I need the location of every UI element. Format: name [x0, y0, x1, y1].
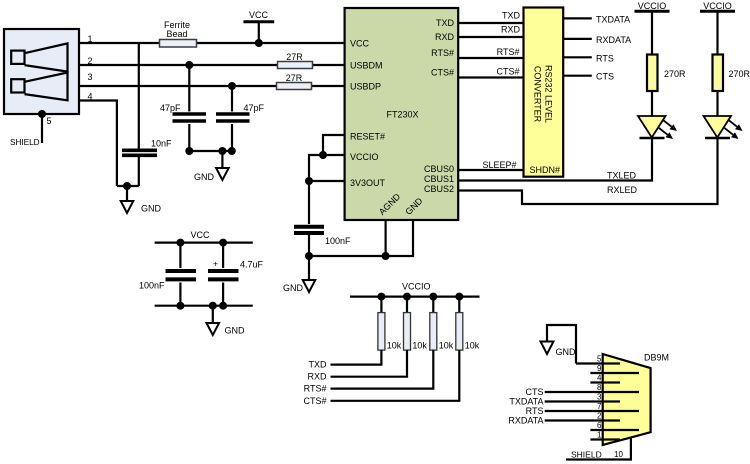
svg-text:3V3OUT: 3V3OUT: [350, 178, 386, 188]
svg-text:1: 1: [597, 431, 602, 440]
wire CTS#: [458, 76, 523, 78]
svg-text:GND: GND: [283, 283, 304, 293]
junction bottom rail c: [219, 302, 227, 310]
wire line4 GND from pin4: [79, 101, 117, 187]
net label TXD: [502, 11, 521, 21]
net label RTS db9: [526, 406, 544, 416]
ground symbol below 47pF caps: [194, 151, 229, 182]
wire RXDATA out: [563, 38, 592, 40]
ground symbol below 10nF: [121, 186, 162, 214]
wire line1 VBUS/VCC: [79, 42, 345, 44]
junction VCC on line1: [255, 39, 263, 47]
junction cap link a: [185, 147, 193, 155]
capacitor C2 47pF on USBDM: [160, 65, 206, 151]
net label SLEEP#: [482, 160, 516, 170]
pin 5 stem wire: [41, 114, 43, 143]
pin 7 line RTS: [545, 402, 639, 411]
wire TXLED CBUS1: [458, 138, 652, 181]
ferrite bead FB1: [160, 20, 197, 47]
pin label CBUS0: [424, 164, 454, 174]
svg-text:CONVERTER: CONVERTER: [533, 66, 543, 123]
pin label TXD: [436, 18, 455, 28]
svg-text:RXDATA: RXDATA: [596, 35, 631, 45]
junction top rail a: [176, 239, 184, 247]
svg-text:TXDATA: TXDATA: [596, 14, 630, 24]
junction cap link c: [228, 147, 236, 155]
capacitor C1 10nF branch: [122, 43, 172, 186]
svg-text:10: 10: [614, 450, 623, 459]
ground symbol chip: [283, 280, 315, 293]
pin label 3V3OUT: [350, 178, 386, 188]
junction 3V3OUT: [305, 177, 313, 185]
LED D2: [704, 116, 743, 139]
net label RXD pullup: [307, 372, 327, 382]
pin 1 line: [590, 431, 620, 440]
wire line3 USBDP: [79, 85, 345, 87]
svg-text:10k: 10k: [387, 341, 402, 351]
LED D1: [638, 116, 677, 139]
net label CTS db9: [526, 387, 544, 397]
svg-text:TXD: TXD: [436, 18, 455, 28]
pin 8 line CTS: [545, 383, 639, 392]
svg-text:GND: GND: [194, 172, 215, 182]
net label RXLED: [607, 185, 638, 195]
wire AGND stub: [385, 220, 387, 256]
junction cap link b: [218, 147, 226, 155]
pin 6 line: [590, 421, 639, 430]
svg-text:10k: 10k: [465, 341, 480, 351]
power VCCIO symbol led1: [635, 1, 670, 54]
svg-text:CTS: CTS: [596, 72, 614, 82]
net label TXDATA: [596, 14, 630, 24]
svg-text:47pF: 47pF: [244, 103, 265, 113]
net label CTS#: [496, 67, 519, 77]
svg-text:DB9M: DB9M: [644, 353, 669, 363]
svg-text:7: 7: [597, 402, 602, 411]
net label TXDATA db9: [509, 397, 543, 407]
capacitor C5 100nF: [139, 243, 196, 306]
svg-text:+: +: [213, 259, 218, 269]
svg-text:4: 4: [597, 374, 602, 383]
wire R4 to LED: [716, 92, 718, 116]
pin 10 shield wire: [566, 438, 631, 460]
resistor R6 10k RXD: [331, 297, 428, 377]
resistor R4 270R: [713, 55, 750, 92]
svg-text:RTS#: RTS#: [304, 384, 327, 394]
svg-text:VCC: VCC: [191, 230, 211, 240]
svg-text:RXD: RXD: [435, 32, 455, 42]
svg-text:TXLED: TXLED: [607, 171, 637, 181]
svg-text:TXD: TXD: [502, 11, 521, 21]
junction GND link chip: [305, 252, 313, 260]
svg-text:VCCIO: VCCIO: [638, 1, 667, 11]
pin label USBDP: [350, 82, 381, 92]
net label SHIELD db9: [571, 450, 602, 460]
power VCCIO symbol led2: [700, 1, 735, 54]
wire VCCIO pin: [309, 155, 345, 224]
pin label RESET#: [350, 132, 385, 142]
pin 5 line: [576, 355, 620, 364]
junction rail r1: [377, 293, 385, 301]
svg-text:USBDP: USBDP: [350, 82, 381, 92]
svg-text:270R: 270R: [664, 69, 686, 79]
pin label GND rotated: [403, 195, 425, 217]
svg-text:RXLED: RXLED: [607, 185, 638, 195]
resistor R1 27R on USBDM: [278, 52, 313, 69]
net label CTS# pullup: [303, 396, 326, 406]
pin label CBUS2: [424, 184, 454, 194]
wire TXD: [458, 22, 523, 24]
net label RTS# pullup: [304, 384, 327, 394]
svg-text:CBUS2: CBUS2: [424, 184, 454, 194]
resistor R8 10k CTS#: [331, 297, 480, 401]
svg-text:RTS: RTS: [596, 53, 614, 63]
junction 47pF-1 on line2: [185, 61, 193, 69]
svg-text:3: 3: [88, 72, 93, 82]
svg-text:CTS: CTS: [526, 387, 544, 397]
svg-text:10k: 10k: [412, 341, 427, 351]
svg-text:CTS#: CTS#: [496, 67, 519, 77]
svg-text:SHDN#: SHDN#: [530, 165, 561, 175]
svg-text:3: 3: [597, 393, 602, 402]
net label VCC: [191, 230, 211, 240]
junction top rail b: [219, 239, 227, 247]
SHIELD net label: [10, 138, 40, 147]
svg-text:27R: 27R: [286, 73, 303, 83]
svg-text:RTS#: RTS#: [431, 48, 454, 58]
svg-text:TXDATA: TXDATA: [509, 397, 543, 407]
svg-text:5: 5: [597, 355, 602, 364]
wire TXDATA out: [563, 17, 592, 19]
svg-text:RXDATA: RXDATA: [508, 416, 543, 426]
svg-text:8: 8: [597, 383, 602, 392]
net label RXDATA: [596, 35, 631, 45]
wire RTS#: [458, 57, 523, 59]
net label RXD: [501, 25, 521, 35]
svg-text:100nF: 100nF: [139, 281, 165, 291]
svg-text:2: 2: [597, 412, 602, 421]
wire AGND/GND bottom link: [309, 220, 413, 256]
junction AGND: [382, 252, 390, 260]
svg-text:VCCIO: VCCIO: [703, 1, 732, 11]
net label RTS: [596, 53, 614, 63]
svg-text:CTS#: CTS#: [303, 396, 326, 406]
svg-text:CTS#: CTS#: [431, 68, 454, 78]
svg-text:TXD: TXD: [309, 360, 328, 370]
wire RXD: [458, 36, 523, 38]
svg-text:VCCIO: VCCIO: [402, 282, 431, 292]
wire RXLED CBUS2: [458, 139, 717, 204]
ground symbol db9: [541, 325, 577, 364]
svg-text:USBDM: USBDM: [350, 61, 383, 71]
svg-text:SHIELD: SHIELD: [10, 138, 40, 147]
svg-text:RXD: RXD: [501, 25, 521, 35]
op-chip U1 FT230X body: [345, 8, 459, 220]
svg-text:RESET#: RESET#: [350, 132, 385, 142]
junction bottom rail b: [209, 302, 217, 310]
svg-text:SLEEP#: SLEEP#: [482, 160, 516, 170]
USB symbol upper horn: [11, 43, 67, 71]
connector J1 USB body: [4, 29, 79, 114]
svg-text:270R: 270R: [729, 69, 750, 79]
pin label USBDM: [350, 61, 383, 71]
pin label CTS#: [431, 68, 454, 78]
svg-text:CBUS1: CBUS1: [424, 174, 454, 184]
pin 2 line RXDATA: [545, 412, 620, 421]
svg-text:VCCIO: VCCIO: [350, 152, 379, 162]
pin 3 label: [88, 72, 93, 82]
svg-text:27R: 27R: [286, 52, 303, 62]
svg-text:GND: GND: [141, 204, 162, 214]
svg-text:RTS: RTS: [526, 406, 544, 416]
wire GND link under 10nF: [117, 185, 139, 187]
pin 3 line TXDATA: [545, 393, 620, 402]
junction pin 5: [38, 110, 46, 118]
svg-text:GND: GND: [225, 326, 246, 336]
pin label AGND rotated: [377, 191, 403, 217]
svg-text:CBUS0: CBUS0: [424, 164, 454, 174]
net label TXLED: [607, 171, 637, 181]
pin label RXD: [435, 32, 455, 42]
ground symbol vcc bank: [207, 306, 246, 336]
wire RESET#: [323, 135, 345, 155]
svg-text:RS232 LEVEL: RS232 LEVEL: [544, 65, 554, 123]
converter U2 body: [524, 8, 564, 177]
capacitor C6 4.7uF polarized: [208, 243, 264, 306]
wire 3V3OUT: [309, 180, 345, 182]
svg-text:47pF: 47pF: [160, 103, 181, 113]
junction RESET/VCCIO: [319, 151, 327, 159]
wire R3 to LED: [651, 92, 653, 116]
resistor R3 270R: [647, 55, 686, 92]
svg-text:FT230X: FT230X: [387, 110, 419, 120]
wire GND link caps: [189, 150, 232, 152]
pin label VCC: [350, 39, 370, 49]
svg-text:VCC: VCC: [249, 10, 269, 20]
net label TXD pullup: [309, 360, 328, 370]
wire VCC top rail: [155, 242, 253, 244]
pin 4 label: [88, 92, 93, 102]
resistor R2 27R on USBDP: [277, 73, 312, 90]
capacitor C3 47pF on USBDP: [216, 86, 265, 151]
svg-text:10nF: 10nF: [151, 139, 172, 149]
junction rail r2: [403, 293, 411, 301]
junction bottom rail a: [176, 302, 184, 310]
svg-text:5: 5: [47, 116, 52, 126]
wire line2 USBDM: [79, 64, 345, 66]
pin 4 line: [590, 374, 620, 383]
connector J2 DB9M body: [603, 353, 669, 446]
junction rail r4: [455, 293, 463, 301]
svg-text:4.7uF: 4.7uF: [240, 260, 264, 270]
junction rail r3: [429, 293, 437, 301]
net label RTS#: [497, 47, 520, 57]
wire VCC bottom rail: [155, 305, 253, 307]
wire VCCIO rail: [350, 296, 480, 298]
junction GND link: [123, 182, 131, 190]
svg-text:6: 6: [597, 421, 602, 430]
wire CTS out: [563, 75, 592, 77]
net label RXDATA db9: [508, 416, 543, 426]
junction 47pF-2 on line3: [228, 82, 236, 90]
wire SLEEP# CBUS0: [458, 169, 523, 171]
pin label VCCIO: [350, 152, 379, 162]
resistor R5 10k TXD: [331, 297, 402, 365]
svg-text:RXD: RXD: [307, 372, 327, 382]
pin 2 label: [88, 56, 93, 66]
svg-text:SHIELD: SHIELD: [571, 450, 602, 460]
pin 5 label: [47, 116, 52, 126]
USB symbol lower horn: [11, 73, 67, 101]
svg-text:100nF: 100nF: [325, 236, 351, 246]
resistor R7 10k RTS#: [331, 297, 454, 389]
svg-text:9: 9: [597, 364, 602, 373]
svg-text:10k: 10k: [439, 341, 454, 351]
power VCC symbol top: [243, 10, 274, 43]
svg-text:VCC: VCC: [350, 39, 370, 49]
svg-text:RTS#: RTS#: [497, 47, 520, 57]
pin label RTS#: [431, 48, 454, 58]
wire RTS out: [563, 56, 592, 58]
net label VCCIO: [402, 282, 431, 292]
capacitor C4 100nF at 3V3OUT: [294, 227, 351, 280]
svg-text:GND: GND: [556, 347, 577, 357]
net label CTS: [596, 72, 614, 82]
pin 1 label: [88, 34, 93, 44]
pin 9 line: [590, 364, 639, 373]
pin label CBUS1: [424, 174, 454, 184]
svg-text:Bead: Bead: [166, 29, 187, 39]
